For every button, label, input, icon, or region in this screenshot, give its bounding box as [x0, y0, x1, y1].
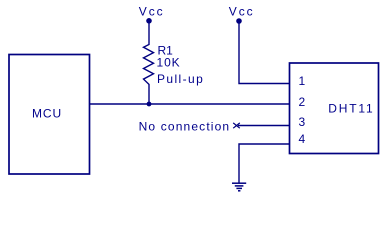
svg-text:Pull-up: Pull-up — [157, 72, 204, 86]
svg-text:2: 2 — [298, 95, 305, 109]
svg-text:4: 4 — [298, 132, 305, 146]
svg-text:1: 1 — [298, 74, 305, 88]
svg-text:No connection: No connection — [139, 119, 231, 133]
svg-text:DHT11: DHT11 — [328, 101, 374, 115]
svg-text:MCU: MCU — [32, 107, 62, 121]
svg-text:3: 3 — [298, 115, 305, 129]
svg-text:10K: 10K — [157, 56, 181, 70]
svg-text:Vcc: Vcc — [139, 4, 165, 18]
svg-text:Vcc: Vcc — [229, 4, 255, 18]
